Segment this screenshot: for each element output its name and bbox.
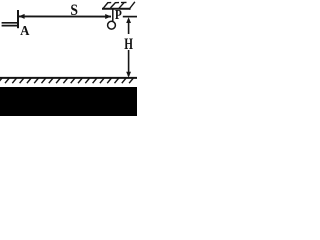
ceiling hatch 1: [103, 3, 111, 9]
ceiling hatch 2: [111, 3, 120, 8]
svg-text:A: A: [20, 22, 30, 38]
black bar bottom: [0, 87, 137, 116]
svg-text:H: H: [124, 35, 133, 52]
wire string of pendulum: [112, 9, 114, 21]
wire S dimension line: [19, 15, 111, 17]
arrow left (at wall): [19, 14, 25, 19]
ceiling hatch 3: [119, 2, 127, 8]
wire reference line right: [123, 16, 137, 18]
H dimension upper arrow: [128, 19, 130, 34]
ceiling hatch 4: [129, 2, 135, 10]
ground hatching: [0, 78, 133, 83]
H dimension lower arrow: [128, 50, 130, 76]
ball (pendulum bob): [108, 21, 116, 29]
arrow right (at string): [105, 14, 111, 19]
ceiling line: [102, 8, 131, 10]
svg-text:P: P: [115, 7, 122, 22]
wall bracket (fixed support at A): [2, 10, 18, 28]
svg-text:S: S: [70, 2, 78, 19]
ground line: [0, 77, 137, 79]
